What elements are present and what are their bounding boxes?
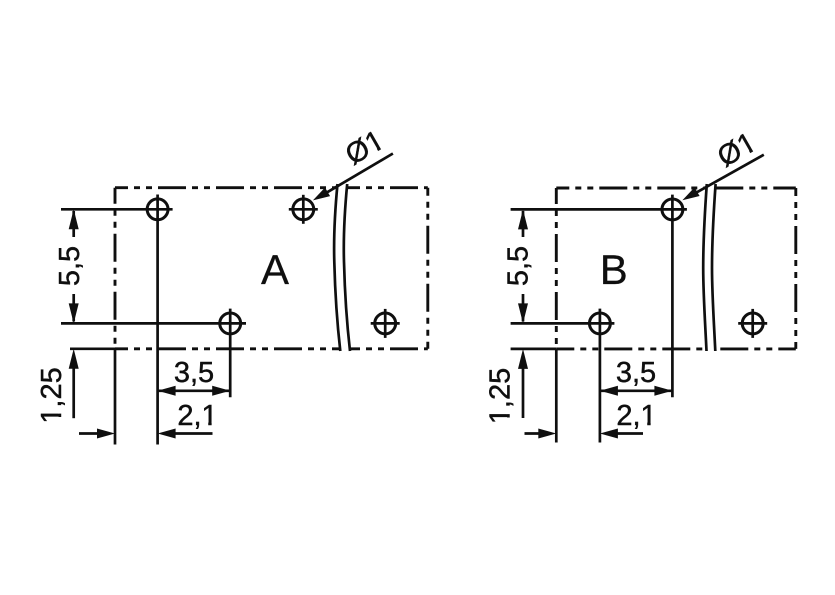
svg-text:2,1: 2,1 xyxy=(177,400,217,432)
svg-text:1,25: 1,25 xyxy=(485,368,517,424)
svg-text:5,5: 5,5 xyxy=(503,246,535,286)
svg-text:B: B xyxy=(600,246,628,293)
svg-text:A: A xyxy=(261,246,289,293)
svg-text:3,5: 3,5 xyxy=(174,357,214,389)
svg-text:3,5: 3,5 xyxy=(616,357,656,389)
svg-text:5,5: 5,5 xyxy=(54,246,86,286)
svg-text:1,25: 1,25 xyxy=(36,367,68,423)
svg-text:2,1: 2,1 xyxy=(616,400,656,432)
